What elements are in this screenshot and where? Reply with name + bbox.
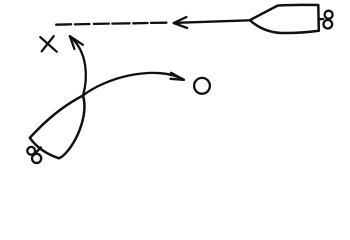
arrowhead left [174, 17, 188, 28]
arrowhead up-left [70, 36, 83, 49]
arrow from boat bow pointing left (shaft) [177, 20, 250, 23]
arrowhead right [171, 73, 184, 80]
buoy circle [194, 78, 210, 94]
boat hull (top, heading left) [250, 5, 319, 33]
propeller (bottom boat): stem [36, 147, 40, 152]
X mark [40, 36, 56, 52]
propeller (bottom boat): blade circles [27, 147, 41, 163]
propeller (top boat): stem [320, 18, 324, 21]
propeller (top boat): blade circles [324, 11, 333, 29]
boat hull (bottom, heading up-right) [30, 96, 85, 159]
dashed track line [56, 23, 166, 25]
curved arrow up from lower boat bow [70, 36, 86, 95]
curved arrow right from lower boat bow to buoy [83, 73, 184, 96]
